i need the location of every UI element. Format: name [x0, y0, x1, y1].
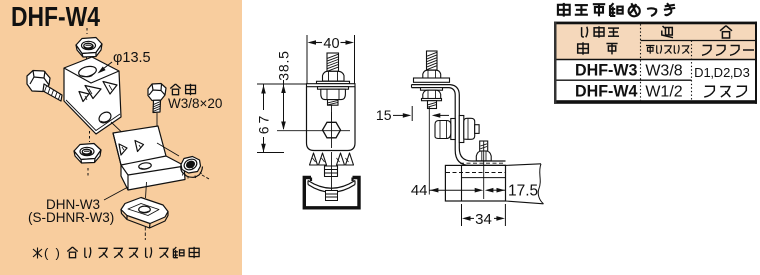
svg-text:W3/8: W3/8: [645, 63, 682, 80]
rod centerline extended: [428, 107, 430, 195]
hex nut (isometric, top): [76, 38, 102, 54]
washer below plate: [318, 87, 349, 90]
svg-text:15: 15: [376, 107, 392, 123]
lower L-bracket: [113, 126, 185, 190]
svg-text:DHF-W4: DHF-W4: [11, 1, 101, 32]
bottom bend + foot (side): [459, 148, 505, 161]
svg-text:44: 44: [411, 182, 428, 199]
threaded rod (front): [307, 53, 356, 105]
crosshair centerlines: [277, 130, 350, 132]
peach background panel: [0, 0, 242, 275]
extension line channel top: [257, 152, 284, 154]
svg-text:34: 34: [475, 211, 492, 228]
svg-text:(S-DHNR-W3): (S-DHNR-W3): [28, 210, 114, 225]
table frame: [554, 24, 757, 100]
svg-text:38.5: 38.5: [276, 50, 292, 80]
clamp bolt hex head: [323, 122, 341, 138]
header: fit: [662, 26, 673, 38]
svg-text:17.5: 17.5: [508, 183, 538, 200]
extension line plate top: [257, 83, 306, 85]
svg-text:D1‚D2‚D3: D1‚D2‚D3: [694, 65, 750, 80]
claw teeth (front): [310, 153, 354, 177]
svg-text:40: 40: [323, 36, 339, 52]
bracket body (front): [307, 87, 356, 151]
rod end below nut: [328, 100, 339, 106]
bracket top arm + bend (side): [412, 85, 460, 148]
svg-text:W1/2: W1/2: [645, 84, 682, 101]
header: duct channel: [702, 46, 711, 56]
hex bolt (left): [27, 71, 62, 102]
hidden line under foot: [460, 162, 505, 164]
label hexagon W3/8x20: [170, 84, 180, 95]
bolt centerline (side): [483, 141, 485, 199]
centerline rod to bolt head: [331, 106, 333, 121]
C-channel (thick, front): [304, 178, 359, 208]
svg-text:67: 67: [256, 113, 272, 135]
clamp bolt shaft into channel: [325, 166, 338, 177]
svg-text:( ): ( ): [44, 246, 60, 261]
dim 17.5: [493, 189, 505, 191]
threaded rod (side): [414, 51, 450, 82]
nut on rod (side): [423, 70, 441, 78]
axis hole to lower bracket: [111, 122, 131, 141]
table title: electro-galvanized: [558, 3, 570, 17]
centerline nut to bracket: [86, 28, 88, 34]
washer above plate: [317, 81, 350, 83]
axis line bolt to flange nut: [157, 143, 179, 156]
washer (side): [414, 78, 450, 82]
header: hanging bolt: [646, 46, 655, 54]
bolt tip + nut inside channel: [326, 191, 338, 201]
svg-text:φ13.5: φ13.5: [113, 50, 151, 66]
svg-text:DHF-W4: DHF-W4: [575, 83, 638, 101]
table inner lines: [640, 24, 642, 100]
bracket plate (top arm edge): [307, 84, 356, 87]
svg-text:DHF-W3: DHF-W3: [575, 62, 638, 80]
header: order part number: [582, 27, 588, 37]
clamp jaw strap inside channel: [308, 181, 355, 193]
dim 34: [461, 204, 463, 226]
clamp bolt through vertical plate (side): [435, 116, 479, 143]
channel (side) rectangle: [445, 165, 505, 201]
svg-text:W3/8×20: W3/8×20: [168, 96, 222, 111]
upper L-bracket: [64, 57, 121, 134]
hex nut below plate: [321, 89, 346, 99]
hex nut on rod: [323, 71, 345, 81]
note: stainless steel in parentheses: [33, 248, 42, 259]
flange nut DHN-W3: [181, 157, 203, 179]
small bolt W3/8x20: [148, 84, 166, 113]
type (merged cell): [704, 86, 714, 97]
square washer plate: [146, 182, 147, 198]
channel rail extension with break line: [506, 164, 542, 166]
hex nut (isometric, middle-left): [89, 131, 91, 142]
under-nut + rod end (side): [421, 88, 443, 109]
clamp nut on foot (side): [476, 141, 491, 161]
